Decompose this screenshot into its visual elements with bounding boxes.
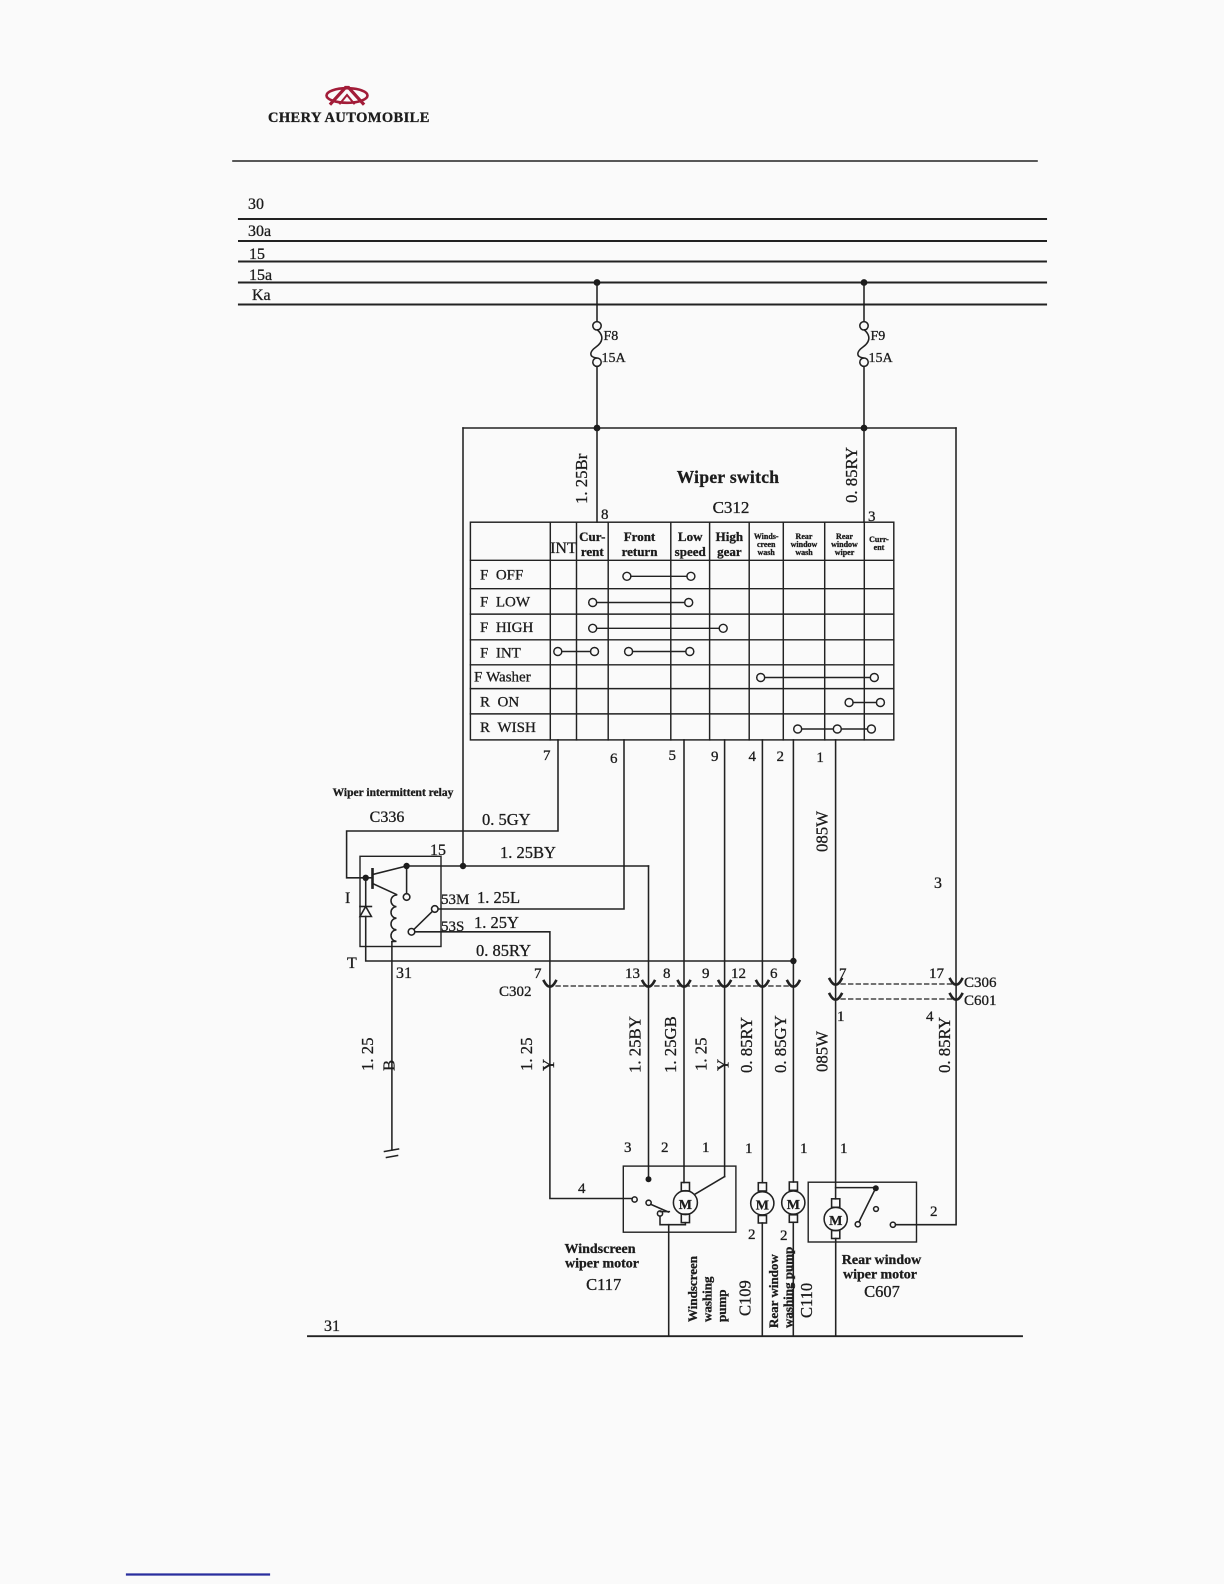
C306 pin 17 terminal	[950, 979, 962, 985]
svg-text:wiper motor: wiper motor	[565, 1257, 639, 1272]
svg-text:7: 7	[543, 748, 551, 764]
C117 park switch contact B	[646, 1200, 651, 1205]
svg-text:Wiper intermittent relay: Wiper intermittent relay	[333, 787, 454, 799]
wire 53M to switch pin6 (1.25L)	[438, 740, 624, 909]
svg-text:085W: 085W	[813, 1031, 832, 1072]
contact F OFF front-return to low-speed	[623, 572, 631, 580]
svg-text:wiper: wiper	[835, 548, 855, 557]
relay box C336	[360, 856, 441, 946]
relay contact a	[403, 894, 410, 901]
svg-text:0. 5GY: 0. 5GY	[482, 810, 531, 829]
svg-text:15A: 15A	[602, 351, 627, 366]
svg-text:6: 6	[610, 751, 618, 767]
svg-text:C109: C109	[736, 1280, 755, 1316]
svg-text:Rear window: Rear window	[766, 1254, 781, 1328]
svg-text:1: 1	[800, 1141, 808, 1157]
svg-text:C110: C110	[797, 1283, 816, 1318]
svg-text:F INT: F INT	[480, 645, 521, 661]
rear window wiper motor box C607	[808, 1182, 916, 1242]
wire rail down-left side	[462, 428, 464, 866]
contact F INT front-return to low-speed	[625, 648, 633, 656]
connector C306 dashed line	[841, 983, 952, 985]
svg-text:wash: wash	[795, 548, 813, 557]
relay armature 53S-53M	[414, 911, 433, 929]
wire T to C302 pin6 (0.85RY)	[366, 740, 794, 986]
wire 15a to fuse F8	[596, 283, 598, 322]
svg-text:4: 4	[926, 1009, 934, 1025]
svg-text:1: 1	[745, 1141, 753, 1157]
wire right rail C601 down to rear motor pin2 (0.85RY)	[896, 984, 957, 1225]
svg-text:2: 2	[777, 749, 785, 765]
windscreen wiper motor box C117	[623, 1166, 736, 1232]
wire 1.25Y C302-7 down to motor pin4	[550, 986, 632, 1199]
svg-text:9: 9	[702, 966, 710, 982]
svg-text:1: 1	[840, 1141, 848, 1157]
svg-text:B: B	[380, 1060, 399, 1071]
C302 pin 12 terminal	[756, 981, 768, 987]
footer blue rule	[127, 1573, 269, 1575]
C302 pin 7 terminal	[544, 981, 556, 987]
column header Current	[579, 529, 744, 559]
motor M1 windscreen wiper	[681, 1183, 689, 1192]
bus Ka line	[239, 303, 1046, 305]
svg-text:0. 85RY: 0. 85RY	[476, 941, 531, 960]
wire switch pin4 down to pump C109 (0.85RY)	[761, 740, 763, 1183]
svg-text:2: 2	[661, 1140, 669, 1156]
svg-text:1: 1	[702, 1140, 710, 1156]
wire C109 to ground bus	[761, 1223, 763, 1336]
svg-text:0. 85RY: 0. 85RY	[935, 1017, 954, 1073]
svg-text:0. 85RY: 0. 85RY	[842, 447, 861, 503]
wire switch pin9 down to motor pin1 (1.25Y)	[724, 740, 726, 1177]
svg-text:1. 25: 1. 25	[358, 1037, 377, 1071]
svg-text:12: 12	[731, 966, 746, 982]
bus 30 line	[239, 218, 1046, 220]
svg-text:CHERY AUTOMOBILE: CHERY AUTOMOBILE	[268, 110, 430, 126]
svg-text:3: 3	[624, 1140, 632, 1156]
svg-text:C336: C336	[370, 809, 405, 826]
node pin3 end	[646, 1176, 652, 1182]
svg-text:C117: C117	[586, 1275, 621, 1294]
node transistor collector / pin 15	[403, 863, 409, 869]
svg-text:F Washer: F Washer	[474, 670, 531, 686]
rear window washing pump C110	[789, 1182, 797, 1190]
svg-text:15A: 15A	[869, 351, 894, 366]
svg-text:2: 2	[930, 1204, 938, 1220]
C302 pin 9 terminal	[719, 981, 731, 987]
C117 park switch contact C	[657, 1211, 662, 1216]
C607 switch feed line	[836, 1187, 875, 1189]
svg-text:C306: C306	[964, 975, 997, 991]
C607 switch contact pin2	[890, 1222, 895, 1227]
fuse F9	[860, 322, 868, 330]
wire F8 to junction	[596, 366, 598, 428]
C607 switch pivot	[873, 1185, 879, 1191]
svg-text:1. 25: 1. 25	[692, 1037, 711, 1071]
svg-text:1. 25: 1. 25	[517, 1037, 536, 1071]
node on 15a for F8	[594, 279, 601, 286]
contact R ON rear-wiper to current	[845, 699, 853, 707]
bus 15a line	[239, 281, 1046, 283]
svg-text:speed: speed	[675, 544, 707, 559]
svg-text:R WISH: R WISH	[480, 720, 536, 736]
node 0.85RY / switch pin2	[790, 958, 796, 964]
wire rail down-right side	[955, 428, 957, 984]
Chery logo	[327, 88, 368, 104]
svg-text:8: 8	[663, 966, 671, 982]
svg-text:C302: C302	[499, 984, 532, 1000]
svg-text:C312: C312	[713, 498, 750, 517]
contact F Washer windscreen-wash to current	[757, 674, 765, 682]
svg-text:gear: gear	[717, 544, 742, 559]
windscreen washing pump C109	[758, 1183, 766, 1191]
C117 park switch lever	[651, 1204, 670, 1212]
svg-text:1. 25Y: 1. 25Y	[474, 913, 519, 932]
svg-text:1. 25BY: 1. 25BY	[500, 843, 556, 862]
label Windscreen wiper motor	[564, 1242, 922, 1328]
wire pin 15 out to junction	[407, 865, 649, 867]
contact F INT int to current	[554, 648, 562, 656]
svg-text:return: return	[622, 544, 659, 559]
svg-text:6: 6	[770, 966, 778, 982]
svg-text:2: 2	[780, 1228, 788, 1244]
svg-text:7: 7	[839, 966, 847, 982]
node on 15a for F9	[861, 279, 868, 286]
C607 switch mid contact	[874, 1207, 879, 1212]
svg-text:1. 25GB: 1. 25GB	[661, 1016, 680, 1073]
svg-text:High: High	[716, 529, 744, 544]
svg-text:Front: Front	[624, 529, 656, 544]
svg-text:1. 25Br: 1. 25Br	[572, 453, 591, 504]
svg-text:F HIGH: F HIGH	[480, 620, 534, 636]
svg-text:Ka: Ka	[252, 287, 271, 304]
svg-text:7: 7	[534, 966, 542, 982]
ground end of pin 31 wire	[385, 1149, 399, 1158]
svg-text:ent: ent	[874, 543, 885, 552]
svg-text:31: 31	[324, 1318, 340, 1335]
svg-text:F9: F9	[871, 329, 886, 344]
svg-text:1: 1	[816, 750, 824, 766]
svg-text:53M: 53M	[441, 892, 469, 908]
svg-text:13: 13	[625, 966, 640, 982]
wire C117 to ground bus	[668, 1225, 670, 1337]
wire 1.25BY junction down to motor pin3	[648, 866, 650, 1179]
svg-text:53S: 53S	[441, 919, 464, 935]
wire junction to switch pin 3	[863, 428, 865, 522]
wire junction to switch pin 8	[596, 428, 598, 522]
svg-text:Windscreen: Windscreen	[564, 1242, 635, 1257]
svg-text:Y: Y	[714, 1059, 733, 1071]
relay contact 53S	[408, 929, 415, 936]
connector C601 dashed line	[841, 998, 952, 1000]
svg-text:Cur-: Cur-	[579, 529, 605, 544]
svg-text:washing pump: washing pump	[781, 1247, 796, 1328]
C306 pin 7 terminal	[830, 979, 842, 985]
wire switch pin5 down to motor pin2 (1.25GB)	[683, 740, 685, 1183]
svg-text:rent: rent	[581, 544, 605, 559]
svg-text:3: 3	[934, 875, 942, 892]
svg-text:4: 4	[749, 749, 757, 765]
relay contact 53M	[432, 906, 439, 913]
wire F9 to junction	[863, 366, 865, 428]
svg-text:15: 15	[249, 246, 265, 263]
wire 53S to C302 pin7 (1.25Y)	[415, 932, 550, 986]
svg-text:T: T	[347, 955, 357, 972]
C302 pin 6 terminal	[787, 981, 799, 987]
svg-text:4: 4	[578, 1181, 586, 1197]
svg-text:085W: 085W	[813, 811, 832, 852]
wire 15a to fuse F9	[863, 283, 865, 322]
node F9/top rail	[861, 425, 868, 432]
svg-text:M: M	[829, 1214, 842, 1229]
svg-text:wash: wash	[758, 548, 776, 557]
C601 pin 4 terminal	[950, 994, 962, 1000]
connector C302 dashed line	[556, 985, 798, 987]
svg-text:F LOW: F LOW	[480, 594, 531, 610]
wire C117 bottom rail	[660, 1216, 685, 1225]
relay coil	[391, 895, 397, 942]
svg-text:0. 85RY: 0. 85RY	[737, 1017, 756, 1073]
contact F HIGH current to high-gear	[589, 624, 597, 632]
svg-text:R ON: R ON	[480, 694, 519, 710]
svg-text:1: 1	[837, 1009, 845, 1025]
wire switch pin1 down to rear motor (085W)	[835, 740, 837, 1199]
svg-text:1. 25BY: 1. 25BY	[626, 1016, 645, 1073]
svg-text:2: 2	[748, 1227, 756, 1243]
svg-text:Windscreen: Windscreen	[685, 1255, 700, 1322]
node F8/top rail	[594, 425, 601, 432]
svg-text:Low: Low	[678, 529, 703, 544]
svg-text:8: 8	[601, 507, 609, 523]
wire C302-6 down to pump C110	[792, 986, 794, 1182]
svg-text:F OFF: F OFF	[480, 568, 523, 584]
bus 30a line	[239, 240, 1046, 242]
header rule	[233, 160, 1037, 162]
wire pin1 diagonal inside C117	[695, 1177, 725, 1195]
svg-text:5: 5	[669, 748, 677, 764]
svg-text:pump: pump	[714, 1289, 729, 1322]
C302 pin 13 terminal	[643, 981, 655, 987]
bus 15 line	[239, 261, 1046, 263]
relay contact stem from pin15	[406, 869, 408, 894]
C302 pin 8 terminal	[678, 981, 690, 987]
svg-text:30: 30	[248, 196, 264, 213]
node relay input	[363, 875, 369, 881]
svg-text:0. 85GY: 0. 85GY	[771, 1015, 790, 1073]
contact F LOW current to low-speed	[589, 599, 597, 607]
motor M2 rear wiper	[832, 1199, 840, 1208]
svg-text:30a: 30a	[248, 223, 271, 240]
C601 pin 1 terminal	[830, 994, 842, 1000]
C607 switch contact common	[855, 1222, 860, 1227]
wire top rail of switch feed	[463, 427, 956, 429]
svg-text:M: M	[679, 1198, 692, 1213]
wiper switch C312 table frame	[470, 522, 893, 740]
svg-text:15: 15	[430, 842, 446, 859]
wire C607 motor to ground bus	[835, 1239, 837, 1337]
svg-text:Wiper switch: Wiper switch	[677, 467, 780, 487]
node pin 15 / left rail junction	[460, 863, 466, 869]
wire relay pin 31 down	[391, 942, 393, 1150]
svg-text:9: 9	[711, 749, 719, 765]
ground bus 31 line	[308, 1335, 1022, 1337]
svg-text:Y: Y	[539, 1059, 558, 1071]
svg-text:31: 31	[396, 965, 412, 982]
fuse F8	[593, 322, 601, 330]
contact R WISH rear-wash to rear-wiper to current	[794, 725, 802, 733]
transistor Q1	[371, 869, 374, 887]
svg-text:wiper motor: wiper motor	[843, 1268, 917, 1283]
svg-text:F8: F8	[604, 329, 619, 344]
svg-text:1. 25L: 1. 25L	[477, 888, 520, 907]
diode D1	[365, 881, 367, 947]
svg-text:17: 17	[929, 966, 945, 982]
svg-text:M: M	[787, 1198, 800, 1213]
svg-text:INT: INT	[550, 540, 577, 557]
wire switch pin7 to relay pin I (0.5GY)	[347, 740, 558, 878]
svg-text:Rear window: Rear window	[842, 1253, 922, 1268]
C607 switch lever	[859, 1191, 875, 1222]
C117 park switch contact A	[632, 1197, 637, 1202]
svg-text:washing: washing	[700, 1276, 715, 1322]
svg-text:I: I	[345, 890, 350, 907]
svg-text:C607: C607	[864, 1282, 900, 1301]
svg-text:C601: C601	[964, 993, 997, 1009]
wire C110 to ground bus	[792, 1222, 794, 1336]
svg-text:M: M	[756, 1199, 769, 1214]
